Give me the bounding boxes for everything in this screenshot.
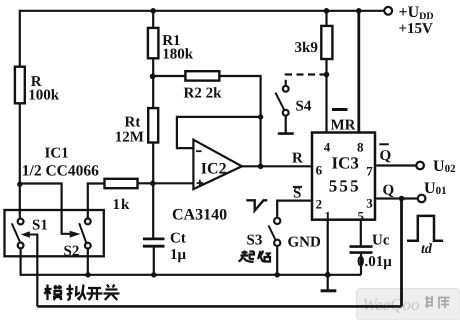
glyph ni (67, 285, 74, 300)
capacitor Ct (143, 239, 165, 246)
op-amp U1 IC2 triangle (193, 140, 242, 189)
svg-text:S3: S3 (247, 233, 263, 249)
svg-text:1k: 1k (113, 197, 131, 213)
wire S3 bottom (276, 246, 278, 275)
wire GND pin 1 (327, 220, 329, 290)
wire S1 bottom to common rail (21, 248, 361, 274)
wire Uc bottom (360, 254, 362, 275)
terminal U02 (416, 162, 424, 170)
label weiku glyphs (425, 296, 450, 309)
wire Q junction down to bottom bus (400, 199, 403, 307)
wire Ct top lead (152, 183, 154, 237)
svg-text:R2 2k: R2 2k (184, 86, 223, 102)
wire R2 left lead (153, 75, 186, 77)
wire R1 top lead (152, 11, 154, 28)
wire 3k9 bottom to MR pin 4 (325, 59, 327, 132)
resistor R1 180k (148, 28, 159, 58)
resistor 3k9 (321, 26, 332, 59)
svg-text:U01: U01 (424, 180, 447, 197)
node MR junction (324, 72, 330, 78)
capacitor Uc (350, 247, 373, 253)
wire op-amp output to 555 R input (242, 165, 311, 167)
svg-text:MR: MR (331, 118, 356, 134)
minus input mark (196, 150, 202, 152)
wire left vertical from rail to R (19, 10, 21, 67)
wire rail to pin 8 (357, 11, 360, 133)
wire S1 control to bottom bus (36, 234, 38, 307)
svg-text:IC2: IC2 (201, 161, 227, 178)
S4 end bar (278, 132, 294, 135)
wire top supply rail (20, 10, 385, 12)
ground (321, 289, 337, 292)
wire S4 bottom (285, 116, 287, 133)
svg-text:IC1: IC1 (45, 146, 69, 162)
waveform td pulse (407, 216, 443, 241)
svg-text:Rt: Rt (125, 115, 141, 131)
node output junction (258, 164, 264, 170)
label analog switch (mo ni kai guan) (45, 285, 120, 301)
watermark box (357, 289, 460, 320)
node Ct bottom (151, 272, 156, 277)
node GND junction (325, 272, 331, 278)
svg-text:Uc: Uc (372, 233, 390, 249)
IC U2 555 box (312, 133, 375, 220)
wire 1k left lead down to S2 top contact (88, 184, 105, 219)
wire 1k right lead to op-amp plus input (138, 182, 194, 184)
resistor Rt 12M (148, 108, 158, 142)
switch S4 (283, 86, 289, 92)
label start (qi shi) (239, 251, 271, 263)
node S2 bottom (85, 272, 90, 277)
svg-text:S1: S1 (32, 218, 48, 234)
wire Ct bottom lead (153, 248, 155, 275)
svg-text:GND: GND (288, 235, 322, 251)
switch S1 (18, 219, 24, 225)
svg-text:1/2 CC4066: 1/2 CC4066 (22, 163, 99, 180)
svg-text:180k: 180k (162, 47, 194, 63)
svg-text:td: td (421, 242, 433, 257)
svg-text:S2: S2 (64, 244, 80, 260)
wire dashed S4 control (286, 75, 327, 86)
svg-text:S4: S4 (296, 99, 312, 115)
svg-text:4: 4 (324, 140, 331, 155)
node R bottom junction (17, 182, 22, 187)
svg-text:12M: 12M (115, 130, 144, 146)
svg-text:Ct: Ct (170, 231, 186, 247)
op-amp IC2 feedback wire (177, 117, 261, 148)
resistor R 100k (15, 67, 25, 104)
wire Q output to U01 (376, 197, 418, 199)
wire R2 right lead down to op-amp output (219, 76, 260, 166)
start pulse glyph (246, 200, 267, 210)
svg-text:Q: Q (380, 148, 392, 164)
svg-text:+15V: +15V (399, 21, 434, 37)
svg-text:6: 6 (316, 163, 323, 178)
S2 control arrow (70, 231, 81, 238)
node feedback tee (258, 114, 263, 119)
wire R-node horizontal to S2 control drop (20, 184, 70, 234)
wire S-bar input to S3 (277, 201, 311, 218)
switch S2 (85, 219, 91, 225)
wire R1 bottom to Rt top (152, 58, 154, 108)
svg-text:IC3: IC3 (332, 154, 359, 173)
wire S2 bottom lead (87, 249, 89, 275)
terminal +UDD (384, 7, 392, 15)
svg-text:U02: U02 (433, 158, 456, 175)
svg-text:CA3140: CA3140 (172, 206, 227, 223)
terminal U01 (418, 195, 426, 203)
wire bottom bus (37, 305, 401, 308)
node 3k9 on rail (324, 8, 330, 14)
wire pin 5 to Uc (360, 220, 362, 246)
wire Q-bar output to U02 (376, 164, 416, 166)
svg-text:3k9: 3k9 (295, 40, 318, 56)
svg-text:555: 555 (329, 177, 361, 196)
glyph kai (87, 288, 103, 300)
wire R bottom to switch box S1 (19, 103, 21, 218)
svg-text:1μ: 1μ (170, 247, 187, 263)
node Q junction (399, 196, 405, 202)
S1 control arrow (29, 234, 37, 236)
glyph guan (104, 285, 120, 301)
plus input mark (197, 180, 204, 187)
svg-text:3: 3 (366, 196, 373, 211)
wire Rt bottom to plus-input node (152, 143, 154, 184)
resistor 1k (105, 179, 138, 188)
node pin8 on rail (356, 8, 362, 14)
glyph mo (45, 285, 52, 301)
svg-text:2: 2 (316, 197, 323, 212)
svg-text:7: 7 (366, 164, 373, 179)
node plus input junction (150, 181, 156, 187)
resistor R2 2k (185, 71, 219, 80)
wire 3k9 top lead (325, 11, 327, 26)
node R1-R2-Rt junction (150, 74, 156, 80)
svg-text:8: 8 (357, 140, 364, 155)
svg-text:WeeQoo: WeeQoo (363, 295, 420, 314)
svg-text:0.01μ: 0.01μ (357, 254, 392, 270)
node R1 top on rail (150, 8, 156, 14)
IC1 switch box (5, 210, 104, 256)
switch S3 (274, 218, 280, 224)
node S3 bottom (275, 272, 280, 277)
svg-text:Q: Q (383, 183, 395, 199)
svg-text:R: R (292, 151, 303, 167)
svg-text:+UDD: +UDD (399, 4, 434, 22)
svg-text:100k: 100k (28, 88, 60, 104)
